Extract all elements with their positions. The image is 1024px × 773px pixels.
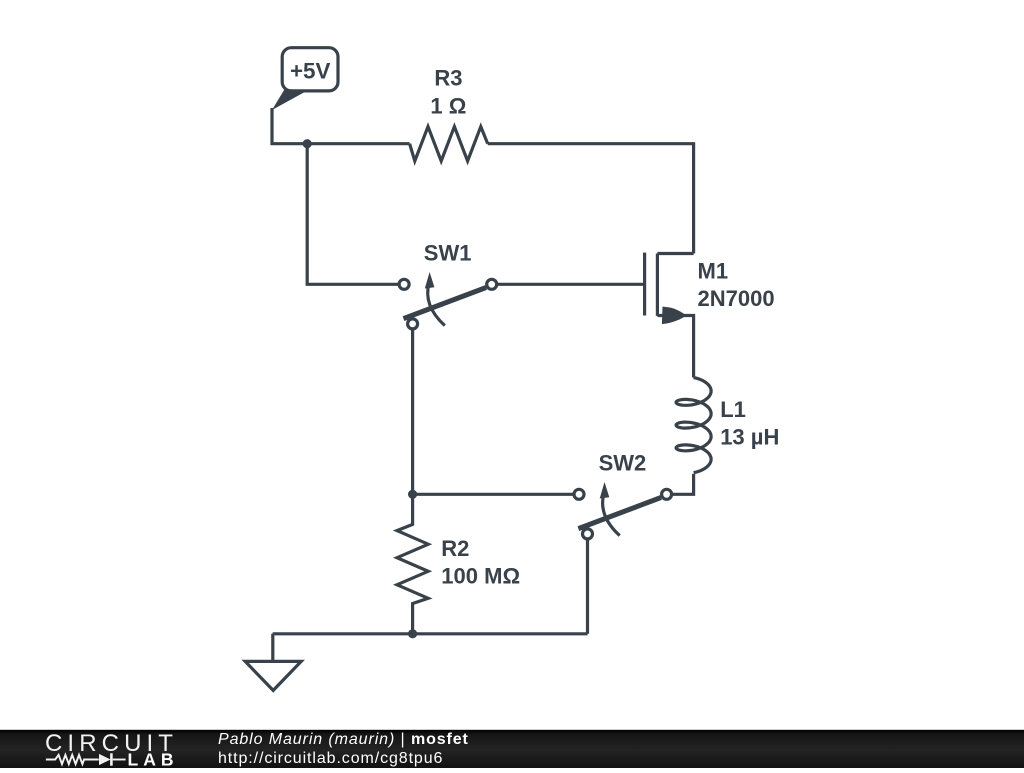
- switch SW2: [574, 482, 672, 539]
- wire R3 to drain rail: [488, 144, 694, 254]
- node A (top rail junction): [303, 139, 312, 148]
- svg-text:Pablo Maurin (maurin) | mosfet: Pablo Maurin (maurin) | mosfet: [218, 731, 469, 748]
- transistor M1 gate bar: [643, 253, 646, 316]
- inductor L1 coil: [676, 378, 711, 473]
- wire +5V to top rail: [272, 108, 410, 144]
- wire node B to SW2: [413, 493, 574, 496]
- M1 source stub: [657, 316, 693, 378]
- svg-text:LAB: LAB: [128, 750, 179, 768]
- M1 source arrow: [662, 307, 687, 325]
- node C bottom junction: [408, 629, 417, 638]
- +5V supply flag V1: [272, 48, 338, 110]
- svg-text:M1: M1: [698, 258, 729, 283]
- wire coil bottom to SW2: [672, 474, 694, 494]
- node B junction: [408, 490, 417, 499]
- bottom wire: [273, 632, 588, 635]
- svg-text:SW1: SW1: [424, 240, 472, 265]
- resistor R3: [410, 127, 488, 161]
- svg-text:L1: L1: [720, 397, 746, 422]
- switch SW1: [399, 272, 497, 329]
- svg-text:+5V: +5V: [290, 58, 331, 83]
- svg-text:1 Ω: 1 Ω: [430, 93, 466, 118]
- wire SW1 bottom throw down to node B: [411, 329, 414, 494]
- svg-text:R2: R2: [441, 536, 469, 561]
- svg-text:2N7000: 2N7000: [698, 286, 775, 311]
- wire SW2 bottom throw down: [586, 539, 589, 634]
- wire node A down to SW1: [307, 144, 399, 285]
- resistor R2: [397, 494, 428, 634]
- logo resistor-diode line: [46, 753, 126, 765]
- svg-text:http://circuitlab.com/cg8tpu6: http://circuitlab.com/cg8tpu6: [218, 750, 443, 767]
- ground symbol: [245, 661, 301, 690]
- footer bar: [0, 730, 1024, 768]
- M1 drain stub: [657, 252, 693, 255]
- wire SW1 to gate: [497, 283, 643, 286]
- svg-text:SW2: SW2: [599, 450, 647, 475]
- svg-text:13 µH: 13 µH: [720, 424, 779, 449]
- transistor M1 channel bar: [656, 254, 659, 316]
- svg-text:100 MΩ: 100 MΩ: [441, 563, 520, 588]
- svg-text:R3: R3: [434, 66, 462, 91]
- ground stub: [271, 634, 274, 662]
